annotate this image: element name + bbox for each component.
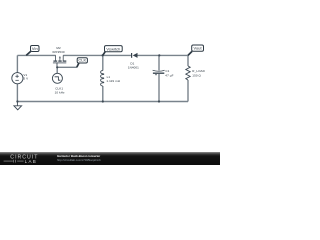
svg-text:http://circuitlab.com/c7495kvq: http://circuitlab.com/c7495kvq2cmb (57, 158, 101, 162)
svg-text:LAB: LAB (25, 159, 38, 164)
